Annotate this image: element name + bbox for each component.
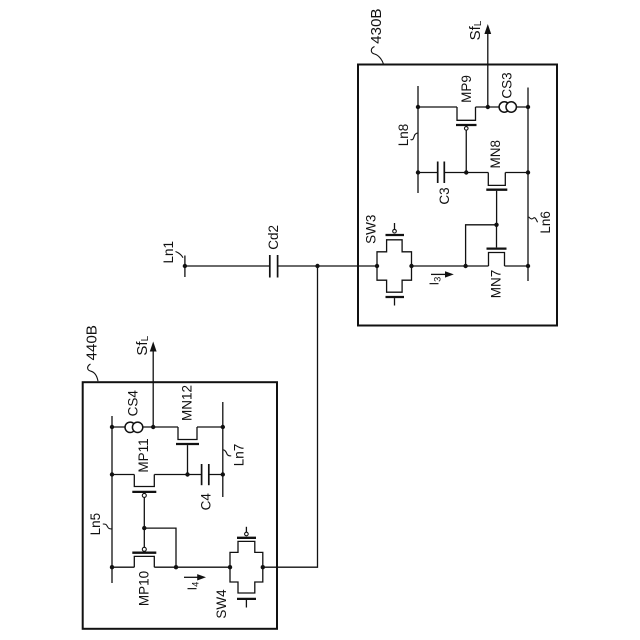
svg-text:SW4: SW4 — [214, 589, 229, 619]
node C4/Ln7 junction — [221, 472, 225, 476]
line Ln7 rail — [222, 402, 224, 497]
wire input bus — [185, 265, 377, 267]
label Ln1 — [161, 241, 183, 264]
capacitor C4 — [202, 464, 209, 485]
arrow I3 — [431, 271, 454, 277]
block 430B box — [358, 65, 557, 326]
current source CS3 — [499, 102, 516, 112]
capacitor Cd2 — [270, 255, 278, 278]
node Cd2 junction — [315, 264, 319, 268]
svg-text:MN7: MN7 — [488, 270, 503, 299]
node C3/MP9-gate junction — [416, 170, 420, 174]
svg-text:Ln7: Ln7 — [232, 444, 247, 467]
line Ln6 rail — [527, 88, 529, 282]
node Ln8 top junction — [416, 105, 420, 109]
wire 430B top rail — [418, 106, 528, 108]
node C3-row/Ln6 junction — [526, 170, 530, 174]
node SW4 right terminal — [261, 565, 265, 569]
svg-text:I4: I4 — [186, 582, 201, 591]
node SW3 left terminal — [375, 264, 379, 268]
svg-text:CS3: CS3 — [500, 72, 515, 98]
output arrow SfL (430B) — [484, 24, 491, 107]
node I3 junction — [463, 264, 467, 268]
node MP10 drain junction — [174, 565, 178, 569]
node MP9 stem junction — [464, 170, 468, 174]
wire gate corner to drain — [144, 528, 176, 567]
node SW4 left terminal — [228, 565, 232, 569]
wire diode feedback — [466, 225, 497, 266]
svg-text:Ln8: Ln8 — [396, 124, 411, 147]
svg-text:430B: 430B — [368, 8, 385, 43]
wire junction drop to SW4 — [263, 266, 318, 567]
label Ln7 — [223, 444, 247, 467]
terminal Ln1 — [183, 256, 187, 278]
label 430B — [368, 8, 385, 64]
wire 440B bottom rail — [112, 566, 230, 568]
node bus/Ln6 junction — [526, 264, 530, 268]
wire bus SW3 to MN7 — [412, 265, 529, 267]
svg-text:SW3: SW3 — [363, 215, 378, 244]
svg-text:I3: I3 — [428, 277, 443, 286]
nmos MN7 — [487, 225, 507, 266]
svg-text:Ln5: Ln5 — [88, 513, 103, 536]
switch SW3 — [377, 223, 412, 306]
svg-text:440B: 440B — [83, 325, 100, 360]
nmos MN8 — [486, 173, 507, 225]
svg-text:MN12: MN12 — [180, 385, 195, 421]
node SfL junction — [486, 105, 490, 109]
node Ln5 top junction — [110, 425, 114, 429]
node gate node MN7/MN8 — [494, 223, 498, 227]
block 440B box — [83, 382, 277, 629]
label Ln8 — [396, 124, 418, 147]
svg-text:Cd2: Cd2 — [266, 225, 281, 250]
svg-text:CS4: CS4 — [126, 390, 141, 417]
svg-text:MP11: MP11 — [136, 438, 151, 472]
svg-text:C3: C3 — [437, 187, 452, 204]
svg-text:MP9: MP9 — [459, 75, 474, 103]
wire MP11 row — [112, 474, 223, 476]
wire 440B top rail — [112, 426, 223, 428]
svg-text:Ln6: Ln6 — [538, 211, 553, 234]
label Ln5 — [88, 513, 111, 536]
node MN12 stem junction — [185, 472, 189, 476]
svg-text:MN8: MN8 — [488, 140, 503, 169]
nmos MN12 — [176, 427, 199, 475]
wire C3 row — [418, 172, 528, 174]
node SfL junction 440B — [151, 425, 155, 429]
pmos MP11 — [132, 475, 156, 529]
output arrow SfL (440B) — [150, 342, 157, 428]
capacitor C3 — [438, 162, 445, 184]
switch SW4 — [230, 527, 263, 608]
node top-rail/Ln6 junction — [526, 105, 530, 109]
node top-rail/Ln7 junction — [221, 425, 225, 429]
svg-text:C4: C4 — [199, 493, 214, 511]
line Ln8 rail — [417, 86, 419, 193]
pmos MP10 — [132, 528, 156, 567]
label Ln6 — [529, 211, 553, 234]
pmos MP9 — [456, 107, 477, 173]
node MP11-row/Ln5 junction — [110, 472, 114, 476]
current source CS4 — [125, 422, 143, 432]
arrow I4 — [184, 574, 206, 580]
line Ln5 rail — [111, 416, 113, 583]
svg-text:SfL: SfL — [134, 335, 151, 355]
node bottom-rail/Ln5 junction — [110, 565, 114, 569]
label 440B — [83, 325, 100, 381]
node SW3 right terminal — [409, 264, 413, 268]
svg-text:Ln1: Ln1 — [161, 241, 176, 264]
svg-text:SfL: SfL — [467, 20, 484, 40]
node MP10/MP11 gate node — [142, 526, 146, 530]
svg-text:MP10: MP10 — [137, 571, 152, 606]
